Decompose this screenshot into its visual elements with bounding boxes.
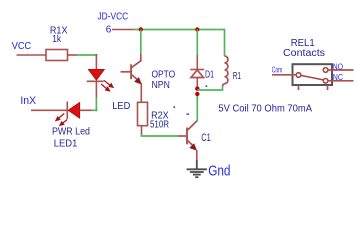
svg-text:NPN: NPN <box>152 80 170 91</box>
svg-text:LED1: LED1 <box>54 137 78 149</box>
svg-text:NO: NO <box>333 63 343 72</box>
svg-text:1k: 1k <box>52 33 61 45</box>
svg-text:InX: InX <box>20 95 36 107</box>
svg-text:510R: 510R <box>150 120 169 131</box>
svg-text:LED: LED <box>112 100 130 112</box>
svg-text:VCC: VCC <box>12 40 32 52</box>
svg-text:OPTO: OPTO <box>152 70 176 81</box>
svg-text:6: 6 <box>106 25 112 36</box>
svg-text:Gnd: Gnd <box>208 164 230 180</box>
svg-text:D1: D1 <box>205 70 214 81</box>
svg-text:C1: C1 <box>201 132 211 144</box>
svg-text:Com: Com <box>272 66 283 75</box>
svg-text:JD-VCC: JD-VCC <box>98 11 129 23</box>
svg-text:NC: NC <box>333 73 343 82</box>
svg-text:PWR Led: PWR Led <box>52 126 90 138</box>
svg-text:R1: R1 <box>233 71 242 82</box>
svg-text:5V Coil 70 Ohm 70mA: 5V Coil 70 Ohm 70mA <box>218 104 312 115</box>
svg-text:Contacts: Contacts <box>283 48 325 59</box>
